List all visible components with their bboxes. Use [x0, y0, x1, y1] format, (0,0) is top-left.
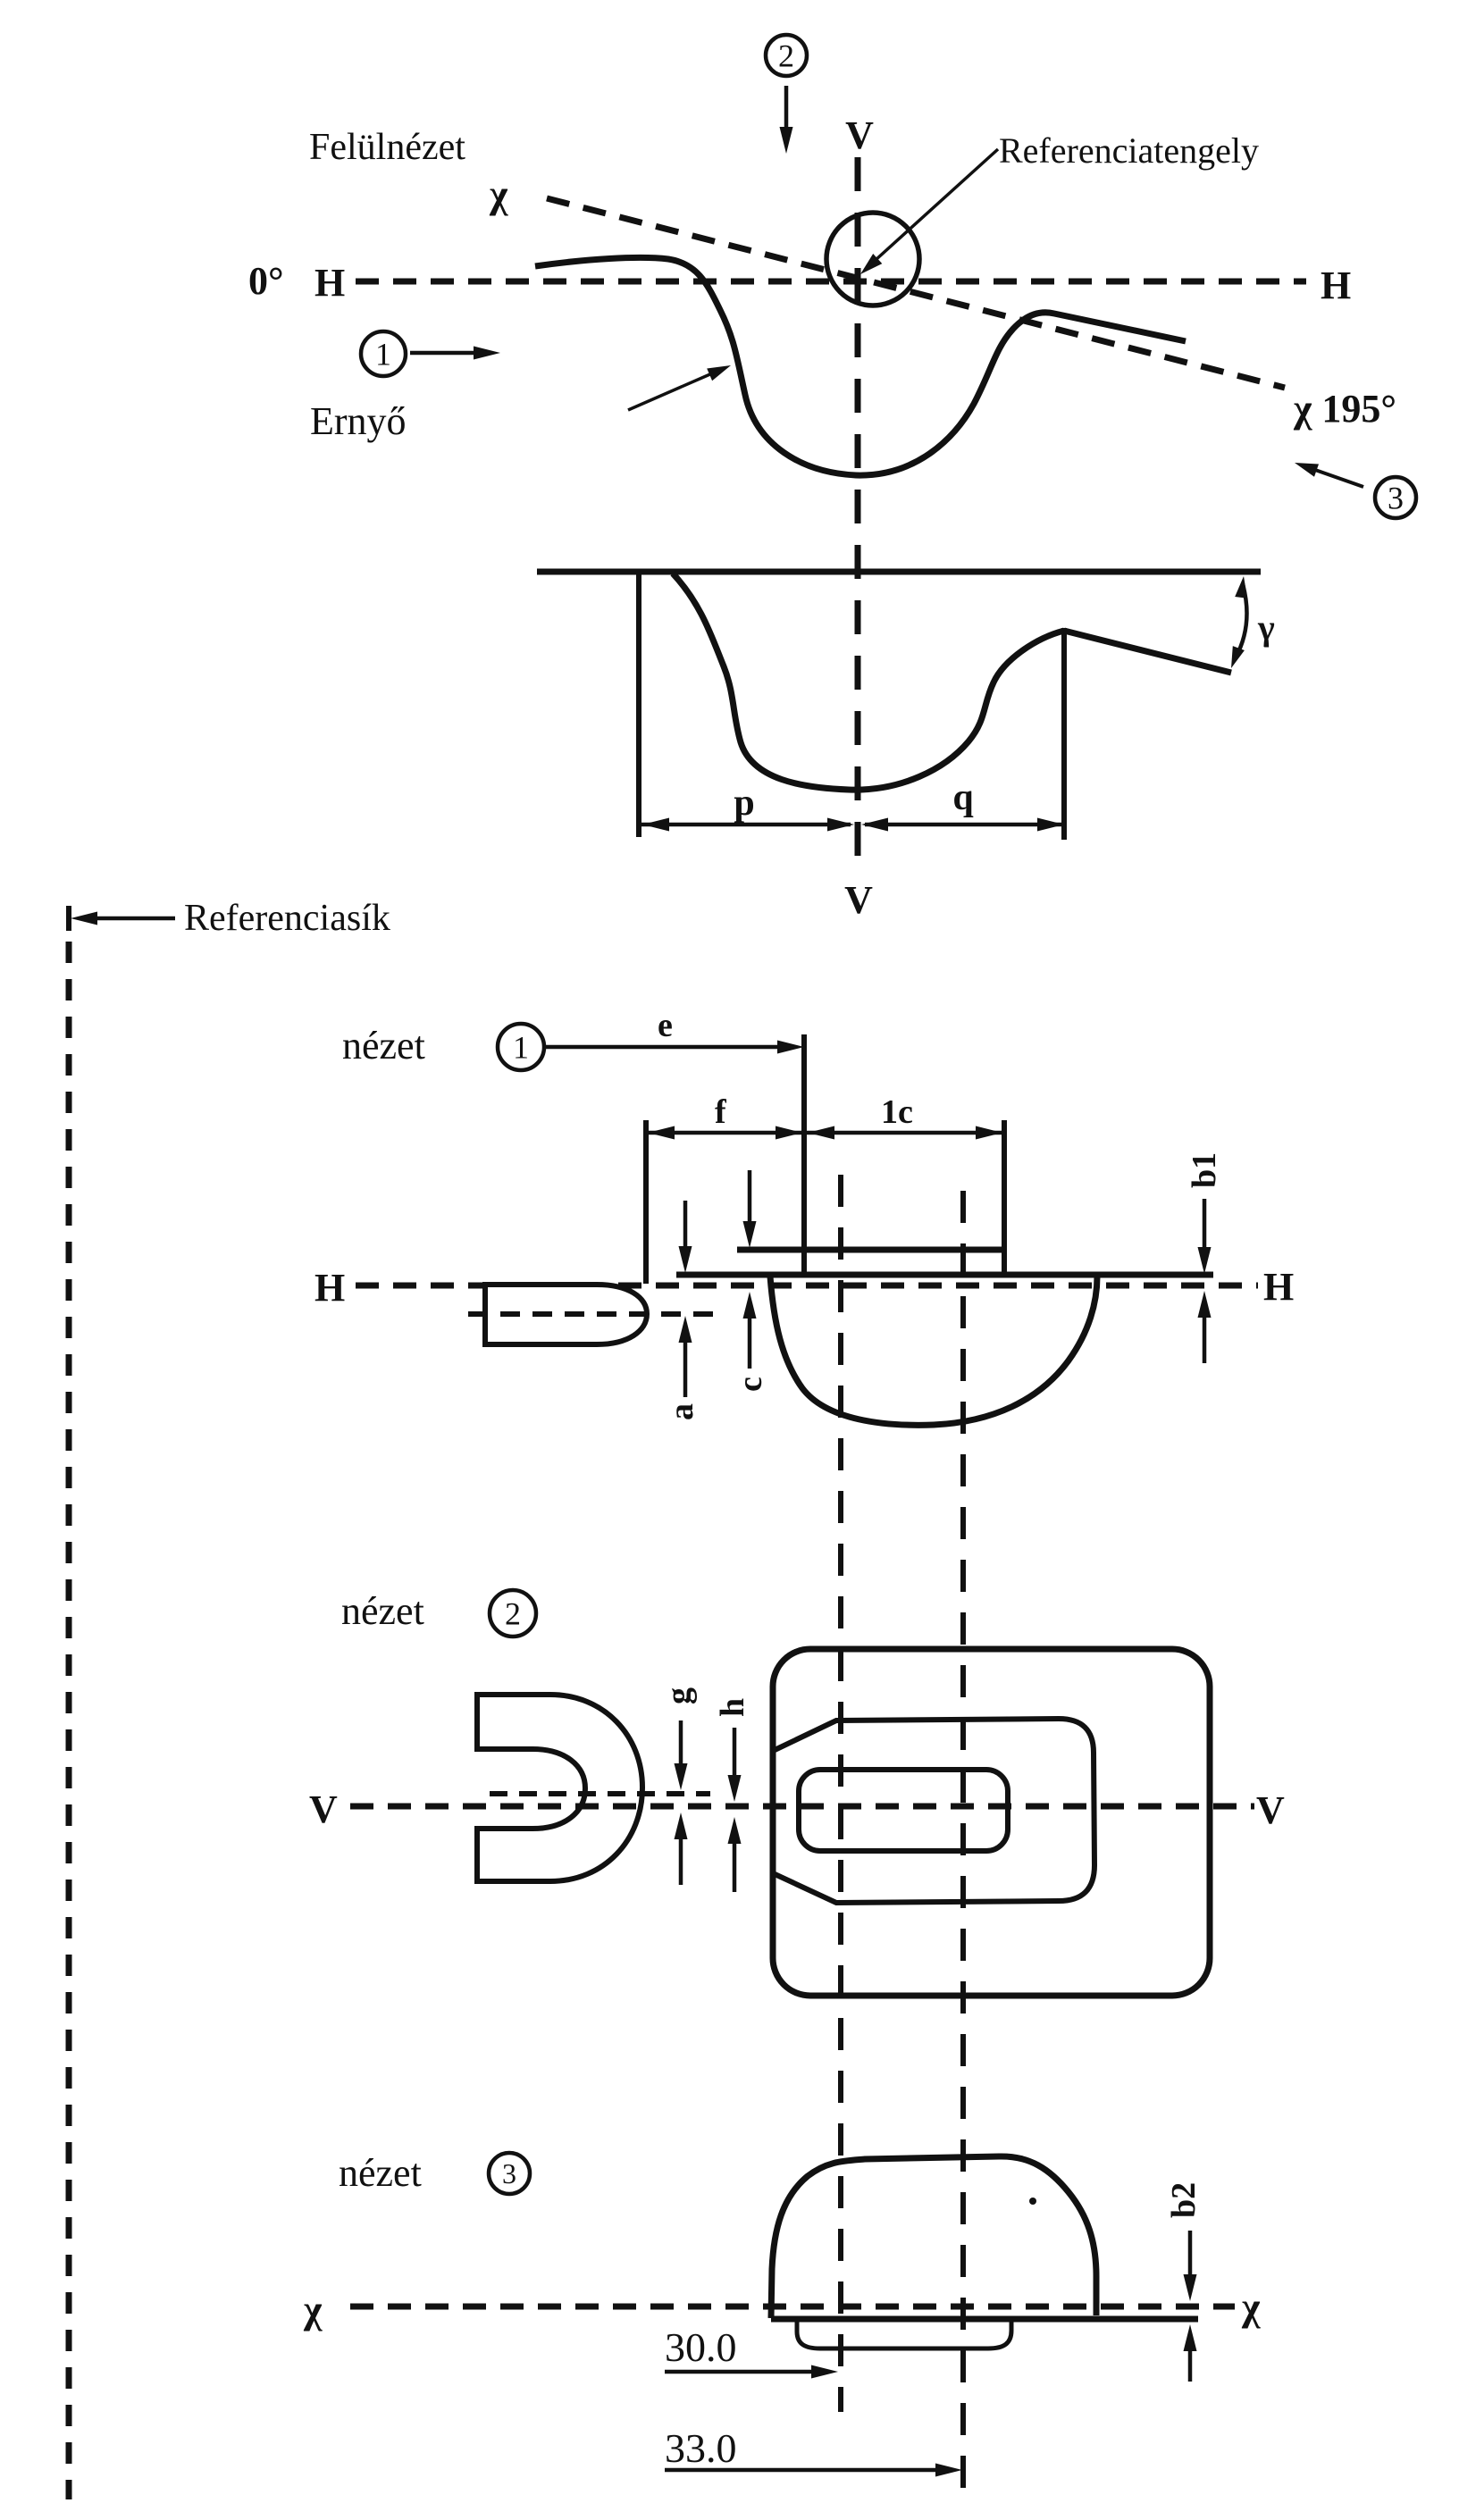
- dimension b1 upper arrow: [1203, 1199, 1207, 1252]
- shield cup (view 1): [770, 1277, 1097, 1425]
- svg-text:3: 3: [502, 2157, 516, 2189]
- svg-text:Felülnézet: Felülnézet: [309, 127, 465, 168]
- svg-text:H: H: [1263, 1265, 1294, 1309]
- svg-text:χ: χ: [489, 172, 508, 216]
- reference plane dashed vertical: [66, 942, 72, 2499]
- svg-text:0°: 0°: [248, 259, 284, 303]
- dimension h lower arrow: [733, 1840, 737, 1892]
- dimension a upper arrow: [683, 1201, 688, 1251]
- dimension line q: [865, 823, 1061, 827]
- svg-text:2: 2: [505, 1596, 521, 1632]
- dimension c upper arrow: [748, 1170, 752, 1226]
- axis H dashed (view 1): [356, 1283, 1258, 1289]
- svg-text:χ: χ: [1241, 2285, 1261, 2329]
- filament window rounded rect (view 2): [799, 1770, 1008, 1851]
- dimension line 1c: [804, 1131, 1004, 1135]
- svg-text:b2: b2: [1165, 2182, 1203, 2218]
- section top line: [537, 569, 1261, 575]
- arrow from marker 3 to shield: [1315, 470, 1363, 487]
- axis chi dashed (view 3): [350, 2304, 1235, 2310]
- view number circle 2: [490, 1590, 536, 1637]
- axis chi dashed line: [547, 198, 1285, 388]
- arrow from marker 2 down: [784, 86, 789, 130]
- gamma angle arc: [1236, 584, 1247, 657]
- svg-text:e: e: [658, 1007, 673, 1044]
- view marker circle 2 (top): [766, 35, 807, 76]
- view marker circle 1 (top): [361, 331, 406, 376]
- axis V dashed (view 2): [350, 1804, 1254, 1810]
- svg-text:30.0: 30.0: [665, 2324, 737, 2370]
- dimension c lower arrow: [748, 1314, 752, 1369]
- arrow from marker 1 right: [410, 351, 477, 356]
- filament horseshoe shape (view 2): [477, 1695, 642, 1881]
- filament axis short dashed (view 2): [490, 1791, 710, 1796]
- svg-text:Referenciasík: Referenciasík: [184, 898, 390, 939]
- svg-text:f: f: [715, 1093, 727, 1131]
- filament axis dashed: [468, 1311, 725, 1317]
- svg-text:1: 1: [375, 337, 391, 373]
- dimension line p: [641, 823, 851, 827]
- shield outline (view 2): [773, 1719, 1094, 1903]
- svg-text:b1: b1: [1186, 1152, 1223, 1188]
- dimension line 33.0: [665, 2468, 939, 2473]
- svg-text:V: V: [309, 1787, 338, 1831]
- vertical line right boundary 1c: [1002, 1120, 1007, 1274]
- section right vertical extension: [1061, 628, 1067, 840]
- dimension h upper arrow: [733, 1728, 737, 1779]
- shield dome (view 3): [771, 2156, 1096, 2318]
- shield bar b1: [737, 1247, 1004, 1253]
- svg-text:a: a: [663, 1403, 700, 1420]
- svg-text:H: H: [314, 261, 345, 305]
- tab under shield (view 3): [797, 2322, 1011, 2348]
- svg-text:χ 195°: χ 195°: [1293, 387, 1396, 431]
- axis H dashed line (top view): [356, 279, 1306, 285]
- svg-text:33.0: 33.0: [665, 2425, 737, 2471]
- dimension g upper arrow: [679, 1720, 683, 1767]
- reference axis circle: [826, 213, 919, 306]
- bulb outline rounded square (view 2): [773, 1649, 1210, 1996]
- reference plane tick: [66, 906, 71, 931]
- svg-text:2: 2: [778, 38, 794, 74]
- svg-text:γ: γ: [1257, 607, 1275, 648]
- dimension b1 lower arrow: [1203, 1313, 1207, 1363]
- svg-text:nézet: nézet: [341, 1589, 424, 1633]
- bulb reference plane line (view 1): [676, 1272, 1213, 1278]
- svg-text:1: 1: [513, 1030, 529, 1066]
- view number circle 3: [489, 2153, 530, 2194]
- svg-text:V: V: [1256, 1788, 1285, 1832]
- speck dot: [1029, 2198, 1036, 2205]
- svg-text:h: h: [714, 1698, 751, 1717]
- dimension b2 upper arrow: [1188, 2231, 1193, 2278]
- svg-text:c: c: [732, 1377, 769, 1392]
- svg-text:nézet: nézet: [342, 1024, 425, 1067]
- svg-text:nézet: nézet: [339, 2151, 422, 2195]
- dimension g lower arrow: [679, 1835, 683, 1885]
- svg-text:g: g: [660, 1687, 698, 1704]
- section shield curve: [673, 573, 1064, 790]
- dimension a lower arrow: [683, 1338, 688, 1397]
- shield base line (view 3): [771, 2316, 1198, 2323]
- shield curve top view: [535, 257, 1186, 475]
- svg-text:V: V: [845, 113, 874, 157]
- svg-text:1c: 1c: [881, 1093, 913, 1131]
- vertical line left boundary f: [643, 1120, 649, 1284]
- section left vertical extension: [636, 572, 641, 837]
- svg-text:Referenciatengely: Referenciatengely: [999, 130, 1259, 171]
- gamma slant line: [1064, 631, 1231, 673]
- vertical line at e (filament 1 end): [801, 1034, 807, 1276]
- leader arrow to shield curve: [628, 373, 712, 410]
- svg-text:Ernyő: Ernyő: [310, 399, 407, 443]
- svg-text:χ: χ: [303, 2288, 323, 2332]
- dimension line 30.0: [665, 2370, 815, 2374]
- svg-text:H: H: [1321, 264, 1351, 307]
- svg-text:V: V: [844, 878, 873, 922]
- svg-text:H: H: [314, 1266, 345, 1310]
- svg-text:p: p: [734, 783, 754, 824]
- dashed vertical at 33.0: [960, 1191, 966, 2491]
- axis V dashed vertical line: [855, 157, 861, 863]
- arrow to reference plane: [82, 917, 175, 921]
- filament bullet shape: [485, 1285, 647, 1344]
- view marker circle 3 (top): [1375, 477, 1416, 518]
- svg-text:3: 3: [1388, 481, 1404, 516]
- leader arrow to reference axis: [876, 149, 998, 260]
- dimension line f: [646, 1131, 804, 1135]
- dashed vertical at 30.0: [838, 1175, 843, 2412]
- view number circle 1: [498, 1024, 544, 1070]
- dimension b2 lower arrow: [1188, 2348, 1193, 2382]
- dimension e leader line: [546, 1045, 781, 1050]
- svg-text:q: q: [952, 777, 973, 818]
